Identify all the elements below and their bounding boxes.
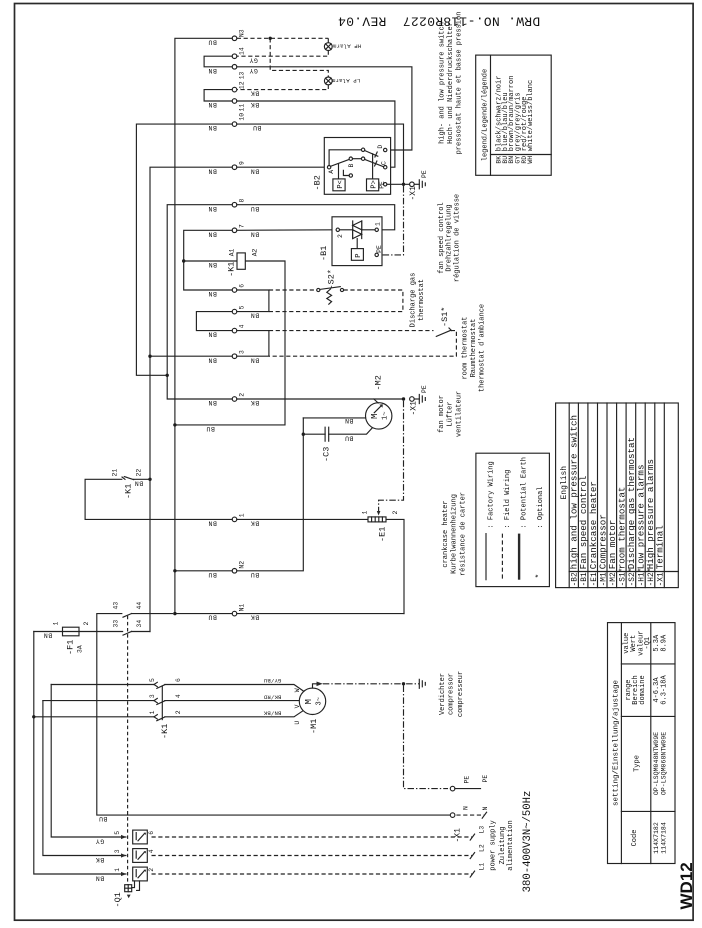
relay coil K1 [227,248,259,276]
note: supply rating 380-400V [522,791,534,893]
B2 terminal D [377,145,387,152]
svg-text:P: P [355,254,363,258]
svg-text:WD12: WD12 [677,862,696,909]
svg-text:BN: BN [208,290,217,297]
svg-text:8: 8 [239,199,246,203]
wire: dashed HP lamp to terminal 14 [237,51,328,57]
svg-text:-F1: -F1 [66,640,76,655]
svg-text:Kurbelwannenheizung: Kurbelwannenheizung [450,494,458,574]
svg-text:PE: PE [482,775,489,783]
svg-text:power supply: power supply [490,820,498,870]
svg-text:high- and low pressure switch: high- and low pressure switch [439,22,447,144]
svg-text:44: 44 [136,602,143,610]
svg-text:GY: GY [249,67,258,74]
wire: Q1 aux 34 lead [132,631,151,633]
Q1 handle symbol [113,881,140,908]
svg-text:white/weiss/blanc: white/weiss/blanc [527,80,535,151]
svg-text:22: 22 [136,469,143,477]
wire: link terminals 5-4 left [196,312,232,331]
svg-text:BU: BU [345,435,354,442]
contactor K1 main contacts [149,678,182,739]
svg-text:1: 1 [375,222,382,226]
svg-text:L1: L1 [479,863,486,871]
B1 terminal 2 [336,228,353,238]
X1 N terminal (bottom) [450,806,488,843]
svg-text:-K1: -K1 [227,262,237,277]
wire: neutral bus BU (N3 left, down to N1) [175,38,232,613]
svg-text:BN: BN [208,520,217,527]
svg-text:ventilateur: ventilateur [455,391,463,437]
disconnect Q1 aux contact 43-44 [113,602,144,618]
svg-text:U: U [294,721,301,725]
note: crankcase heater [442,492,468,576]
svg-text:114X7182: 114X7182 [653,822,660,854]
svg-text:-X1: -X1 [409,401,418,416]
fuse F1 3A [43,622,90,656]
svg-text:PE: PE [378,181,385,189]
svg-text:-B1: -B1 [581,572,589,586]
svg-text:fan motor: fan motor [438,395,446,433]
svg-text:9: 9 [239,161,246,165]
svg-text:-X1: -X1 [453,828,462,843]
svg-text:1: 1 [239,513,246,517]
wire: terminal 11 to B2 terminal C [237,101,395,167]
svg-text:BN: BN [208,356,217,363]
K1 auxiliary contact 21-22 [112,469,151,499]
svg-text:34: 34 [136,620,143,628]
field wiring L1 [152,863,486,877]
terminal X1:7 [208,224,259,237]
wire: terminal 3 branch from control bus [150,355,232,357]
M1 PE arrow and earth [313,679,426,688]
ground symbol (M2 row) [419,395,425,404]
svg-text:1: 1 [149,710,156,714]
svg-text:5: 5 [239,305,246,309]
svg-text:-H1*: -H1* [639,568,647,587]
svg-text:C: C [380,161,387,165]
note: room thermostat [462,304,487,392]
svg-text:33: 33 [113,620,120,628]
svg-text:1: 1 [53,622,60,626]
svg-text:OP-LSQM048NTW09E: OP-LSQM048NTW09E [653,732,660,795]
wire: terminal 8 bus down to terminal 2 [167,205,232,399]
wire: K1 poles to M1 motor [165,685,304,717]
svg-text:4: 4 [175,694,182,698]
compressor motor M1 [263,677,326,734]
svg-text:PE: PE [376,245,383,253]
svg-text:Type: Type [634,755,642,772]
svg-text:: Factory Wiring: : Factory Wiring [488,461,496,528]
B2 terminal B [343,164,354,178]
svg-text:2: 2 [148,868,155,872]
wire: BK phase bus K1 pole 3 to Q1 [43,701,154,856]
svg-text:43: 43 [113,602,120,610]
terminal X1:1 [208,513,259,526]
svg-text:N2: N2 [239,561,246,569]
svg-text:2: 2 [239,393,246,397]
pressure switch B2 box [313,138,391,195]
svg-text:L2: L2 [479,844,486,852]
svg-text:Terminal: Terminal [655,525,666,569]
svg-text:6: 6 [239,284,246,288]
svg-text:GY: GY [95,838,104,845]
B2 P-less actuator box [333,164,345,191]
wire: terminal 6 right to bracket [237,290,269,312]
wire: dashed lamp circuit from N3 [237,38,328,42]
wiring style legend box [476,453,550,586]
svg-text:BN: BN [208,230,217,237]
wire: dashed S2 loop terminal 6 side [269,290,403,312]
svg-text:Drehzahlregelung: Drehzahlregelung [446,204,454,271]
svg-text:M: M [304,699,314,704]
svg-text:V: V [294,704,301,708]
svg-text:BN/BK: BN/BK [263,710,281,717]
svg-text:2: 2 [175,710,182,714]
svg-text:3: 3 [239,350,246,354]
svg-text:14: 14 [239,47,246,55]
svg-text:BN: BN [250,230,259,237]
wire: terminal 2 to M2 and X1 PE node [237,398,404,400]
svg-text:Lüfter: Lüfter [447,401,455,426]
B2 terminal C [380,161,387,169]
svg-text:-E1: -E1 [378,527,388,542]
terminal X1:14 [232,47,258,63]
svg-text:BU: BU [99,815,108,822]
svg-text:Hoch- und Niederdruckschalter: Hoch- und Niederdruckschalter [447,22,455,144]
wire: terminal 4 right to bracket [237,331,269,357]
svg-text:legend/Legende/légende: legend/Legende/légende [482,69,490,161]
terminal X1:6 [208,284,246,297]
svg-text:-K1: -K1 [124,484,134,499]
setting table [608,623,676,864]
B2 terminal PE [378,181,409,189]
svg-text:GY/BU: GY/BU [264,677,282,684]
wire: terminal 13 to B2 terminal D [237,67,412,150]
svg-text:N: N [463,806,470,810]
svg-text:BN: BN [43,632,52,639]
svg-text:5: 5 [149,678,156,682]
svg-text:6: 6 [148,831,155,835]
terminal X1:3 [208,350,259,363]
svg-text:LP Alarm: LP Alarm [331,77,360,84]
svg-text:-B2: -B2 [313,175,323,190]
svg-text:7: 7 [239,224,246,228]
fan motor M2 [303,375,392,429]
svg-text:BU: BU [208,614,217,621]
svg-text:Verdichter: Verdichter [439,673,447,715]
wire: terminal 9 to B2 terminal A [237,166,328,168]
wire: Q1 aux 44 to neutral bus [132,613,173,615]
room thermostat contact S1 [436,307,451,337]
svg-text:Raumthermostat: Raumthermostat [470,319,478,378]
svg-text:-M1: -M1 [600,572,608,586]
ground symbol (B2 row) [414,180,425,189]
wire: control bus from terminal 9 down to Q1 aux 34 [150,167,232,631]
svg-text:domaine: domaine [639,675,647,704]
crankcase heater E1 [362,511,400,543]
svg-text:21: 21 [112,469,119,477]
svg-text:1: 1 [362,511,369,515]
svg-text:Discharge gas: Discharge gas [410,273,418,328]
svg-text:BN: BN [208,124,217,131]
Q1 mechanical link dashed [127,616,129,885]
wire: link terminals 14-13 [204,56,232,67]
svg-text:BN: BN [208,399,217,406]
svg-text:compressor: compressor [448,673,456,715]
terminal X1:4 [208,324,246,337]
svg-text:N: N [482,807,489,811]
svg-text:A1: A1 [229,248,236,256]
lamp H1* LP Alarm [324,77,360,85]
terminal X1:13 [208,65,258,80]
svg-text:BK/RD: BK/RD [263,693,281,700]
wire: N1 line left of terminal [175,613,232,615]
svg-text:*: * [535,574,544,579]
svg-text:2: 2 [392,511,399,515]
note: discharge gas thermostat [410,273,426,328]
svg-text:-S2*: -S2* [326,269,336,289]
wire: N1 right run to E1 riser [237,613,404,615]
svg-text:BK: BK [250,101,259,108]
B2 lower contact (P< to C) [331,157,384,167]
svg-text:N3: N3 [239,29,246,37]
svg-text:BN: BN [208,167,217,174]
svg-text:Code: Code [631,830,639,847]
svg-text:-E1: -E1 [591,572,599,586]
svg-text:L3: L3 [479,826,486,834]
svg-text:4: 4 [239,324,246,328]
svg-text:-X1: -X1 [409,186,418,201]
fan speed control B1 box [319,217,382,266]
terminal X1:2 [208,393,259,406]
disconnect switch Q1 poles [95,830,155,882]
svg-text:-Q1: -Q1 [644,637,652,650]
svg-text:-S2*: -S2* [629,568,637,587]
svg-text:BU: BU [208,571,217,578]
wire: dashed branch to LP lamp [270,38,328,77]
wire: neutral from Q1 aux 43 down to X1 N [97,614,451,823]
B2 P-greater actuator box [367,154,379,191]
svg-text:10: 10 [239,113,246,121]
svg-text:BN: BN [95,875,104,882]
svg-text:BU: BU [250,571,259,578]
svg-text:B: B [348,164,355,168]
terminal X1:12 [232,81,259,96]
svg-text:: Field Wiring: : Field Wiring [504,470,512,529]
svg-text:2: 2 [337,234,344,238]
sheet code WD12 [677,862,696,909]
svg-text:BK: BK [95,856,104,863]
svg-text:W: W [294,688,301,692]
svg-text:BN: BN [208,331,217,338]
capacitor C3 [303,417,372,462]
B1 terminal 1 [362,222,382,232]
terminal X1:10 [208,113,261,131]
note: compressor [439,671,465,717]
svg-text:-M1: -M1 [309,719,319,734]
svg-text:1: 1 [114,868,121,872]
svg-text:11: 11 [239,104,246,112]
wire: dashed S1 loop terminal 4 side [269,331,457,357]
svg-text:3: 3 [114,849,121,853]
svg-text:GY: GY [249,56,258,63]
svg-text:6.3-18A: 6.3-18A [661,674,669,704]
svg-text:13: 13 [239,71,246,79]
potential earth link M2 node to E1 [377,401,404,516]
svg-text:BN: BN [250,356,259,363]
svg-text:380-400V3N~/50Hz: 380-400V3N~/50Hz [522,791,534,893]
svg-text:PE: PE [421,170,428,178]
svg-text:3A: 3A [77,645,84,653]
svg-text:crankcase heater: crankcase heater [442,500,450,567]
terminal X1:5 [232,305,259,318]
wire: BN phase bus to K1 pole 1 and Q1 [34,632,154,875]
terminal X1:N2 [208,561,259,578]
svg-text:régulation de vitesse: régulation de vitesse [453,194,461,282]
svg-text:-Q1: -Q1 [113,892,123,907]
svg-text:3~: 3~ [315,697,323,705]
svg-text:P<: P< [337,180,345,188]
wire: N2 right to C3/M2 riser [237,418,303,571]
svg-text:BK: BK [250,614,259,621]
svg-text:4: 4 [148,849,155,853]
note: fan motor [438,391,463,437]
svg-text:BU: BU [250,205,259,212]
note: high and low pressure switch [439,12,464,155]
wire: K1 aux 21 to terminal 1 [85,479,232,519]
svg-text:-B1: -B1 [319,246,329,261]
svg-text:8.9A: 8.9A [661,634,669,652]
terminal X1:8 [208,199,259,212]
colour legend table [476,55,552,175]
component designation table (English) [556,403,679,588]
terminal X1:N1 [208,604,259,621]
svg-text:A2: A2 [252,248,259,256]
B1 terminal PE [375,245,383,257]
svg-text:P>: P> [370,180,378,188]
wire: N2 branch left [175,570,232,572]
svg-text:A: A [328,170,335,174]
wire: terminal 10 bus down joining 8-2 bus [136,124,232,375]
svg-text:WH: WH [527,156,534,164]
svg-text:-C3: -C3 [321,447,331,462]
note: fan speed control [438,194,461,282]
terminal X1:11 [208,99,259,112]
svg-text:M: M [370,414,380,419]
terminal X1:9 [208,161,259,174]
svg-text:5: 5 [114,831,121,835]
svg-text:: Optional: : Optional [537,486,545,528]
svg-text:BU: BU [208,38,217,45]
svg-text:-M2: -M2 [374,375,384,390]
svg-text:Zuleitung: Zuleitung [499,827,507,865]
svg-text:BN: BN [134,480,143,487]
disconnect Q1 aux contact 33-34 [113,620,144,635]
svg-text:-K1: -K1 [160,724,170,739]
svg-text:English: English [560,466,569,500]
B1 P control box [351,249,363,261]
wire: K1 coil A2 return to neutral bus [175,261,285,432]
svg-text:12: 12 [239,81,246,89]
wire: dashed LP lamp to terminal 12 [237,85,328,90]
svg-text:résistance de carter: résistance de carter [460,492,468,576]
svg-text:-S1*: -S1* [440,307,450,327]
svg-text:BN: BN [250,167,259,174]
svg-text:N1: N1 [239,604,246,612]
svg-text:BU: BU [206,425,215,432]
potential earth link X1 to B1 PE [378,186,403,255]
B2 terminal A [327,166,334,174]
svg-text:6: 6 [175,678,182,682]
svg-text:thermostat d'ambiance: thermostat d'ambiance [479,304,487,392]
wire: terminal 1 to E1 crankcase heater [237,518,368,520]
svg-text:114X7184: 114X7184 [661,822,668,854]
wire: terminal 8 to B1 terminal 1 [237,205,395,230]
svg-text:BN: BN [208,205,217,212]
svg-text:BK: BK [250,399,259,406]
field wiring L3 [152,826,486,840]
svg-text:PE: PE [421,385,428,393]
svg-text:thermostat: thermostat [418,279,426,321]
svg-text:OP-LSQM068NTW09E: OP-LSQM068NTW09E [661,732,668,795]
svg-text:HP Alarm: HP Alarm [332,43,361,50]
wire: GY phase bus K1 pole 5 to Q1 [51,685,154,838]
field wiring L2 [152,844,486,858]
svg-text:D: D [377,145,384,149]
svg-text:BN: BN [250,312,259,319]
wire: terminal 7 to K1 coil A1 bus [184,230,237,290]
B1 triac symbol [353,221,362,249]
svg-text:-B2: -B2 [572,572,580,586]
note: power supply [490,820,515,870]
wire: terminal 7 to B1 terminal 2 [237,229,336,232]
svg-text:BU: BU [253,124,262,131]
terminal X1:N3 [208,29,246,45]
svg-text:-X1: -X1 [658,572,666,586]
svg-text:PE: PE [464,776,471,784]
svg-text:2: 2 [83,622,90,626]
svg-text:1~: 1~ [382,412,390,420]
svg-text:pressostat haute et basse pres: pressostat haute et basse pression [456,12,464,155]
wire: terminal 10 to X1 PE node [237,124,404,184]
X1 PE terminal (B2 row) [409,170,428,200]
svg-text:setting/Einstellung/ajustage: setting/Einstellung/ajustage [613,680,621,806]
svg-text:compresseur: compresseur [457,671,465,717]
wire: F1 to Q1 aux 33 [79,631,123,633]
X1 PE terminal (bottom) [450,775,489,791]
svg-text:3: 3 [149,694,156,698]
svg-text:-S1*: -S1* [619,568,627,587]
wire: E1 pin2 to N1 [386,519,404,613]
lamp H2* HP Alarm [324,43,361,51]
svg-text:BK: BK [250,520,259,527]
svg-text:BN: BN [208,67,217,74]
B2 upper contact (P> to D) [329,148,378,165]
potential earth link M1 to X1 PE [404,686,449,789]
svg-text:-M2: -M2 [610,572,618,586]
svg-text:BN: BN [208,261,217,268]
svg-text:BN: BN [208,101,217,108]
thermostat contact S2 [317,269,344,304]
svg-text:alimentation: alimentation [507,820,515,870]
wire: F1 to BN bus [34,631,63,633]
svg-text:: Potential Earth: : Potential Earth [521,457,529,528]
X1 PE terminal (M2 row) [409,385,428,415]
svg-text:room thermostat: room thermostat [462,316,470,379]
wire: link terminals 12-11 [204,90,232,101]
svg-text:-H2*: -H2* [648,568,656,587]
svg-text:BK: BK [250,90,259,97]
